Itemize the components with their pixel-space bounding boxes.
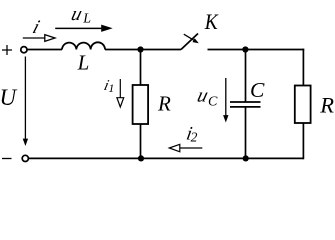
voltage arrow U (23, 57, 28, 147)
capacitor C (230, 102, 261, 107)
terminal top-left (21, 47, 27, 53)
node dot top right (242, 46, 248, 52)
minus terminal sign (2, 158, 12, 160)
wire right branch vertical bottom (302, 123, 304, 159)
wire resistor branch bottom (140, 124, 142, 158)
svg-text:K: K (204, 9, 219, 34)
current arrow i1 (117, 79, 124, 107)
wire resistor branch top (140, 50, 142, 86)
voltage arrow uL (55, 25, 112, 32)
current arrow i2 (169, 144, 202, 152)
current arrow i (23, 35, 55, 42)
resistor R2 (295, 86, 311, 124)
svg-text:L: L (82, 12, 91, 27)
wire bottom (28, 157, 303, 159)
wire top right (208, 49, 305, 51)
wire capacitor branch bottom (245, 107, 247, 158)
wire top-left (27, 49, 62, 51)
wire capacitor branch top (245, 50, 247, 103)
svg-text:C: C (208, 95, 218, 110)
wire right branch vertical top (302, 49, 304, 86)
voltage arrow uC (223, 78, 228, 123)
wire top middle (105, 49, 181, 51)
plus terminal sign (2, 45, 12, 55)
switch K (181, 34, 199, 50)
svg-text:R: R (157, 92, 171, 116)
svg-text:U: U (0, 85, 18, 110)
inductor L (62, 42, 105, 49)
svg-text:L: L (77, 51, 90, 75)
terminal bottom-left (22, 155, 28, 161)
node dot bottom middle (138, 155, 144, 161)
svg-text:C: C (250, 78, 265, 102)
node dot top middle (137, 46, 143, 52)
svg-text:R: R (319, 92, 334, 117)
svg-text:1: 1 (108, 81, 114, 95)
svg-text:2: 2 (191, 129, 198, 144)
resistor R1 (133, 85, 149, 124)
node dot bottom right (243, 155, 249, 161)
